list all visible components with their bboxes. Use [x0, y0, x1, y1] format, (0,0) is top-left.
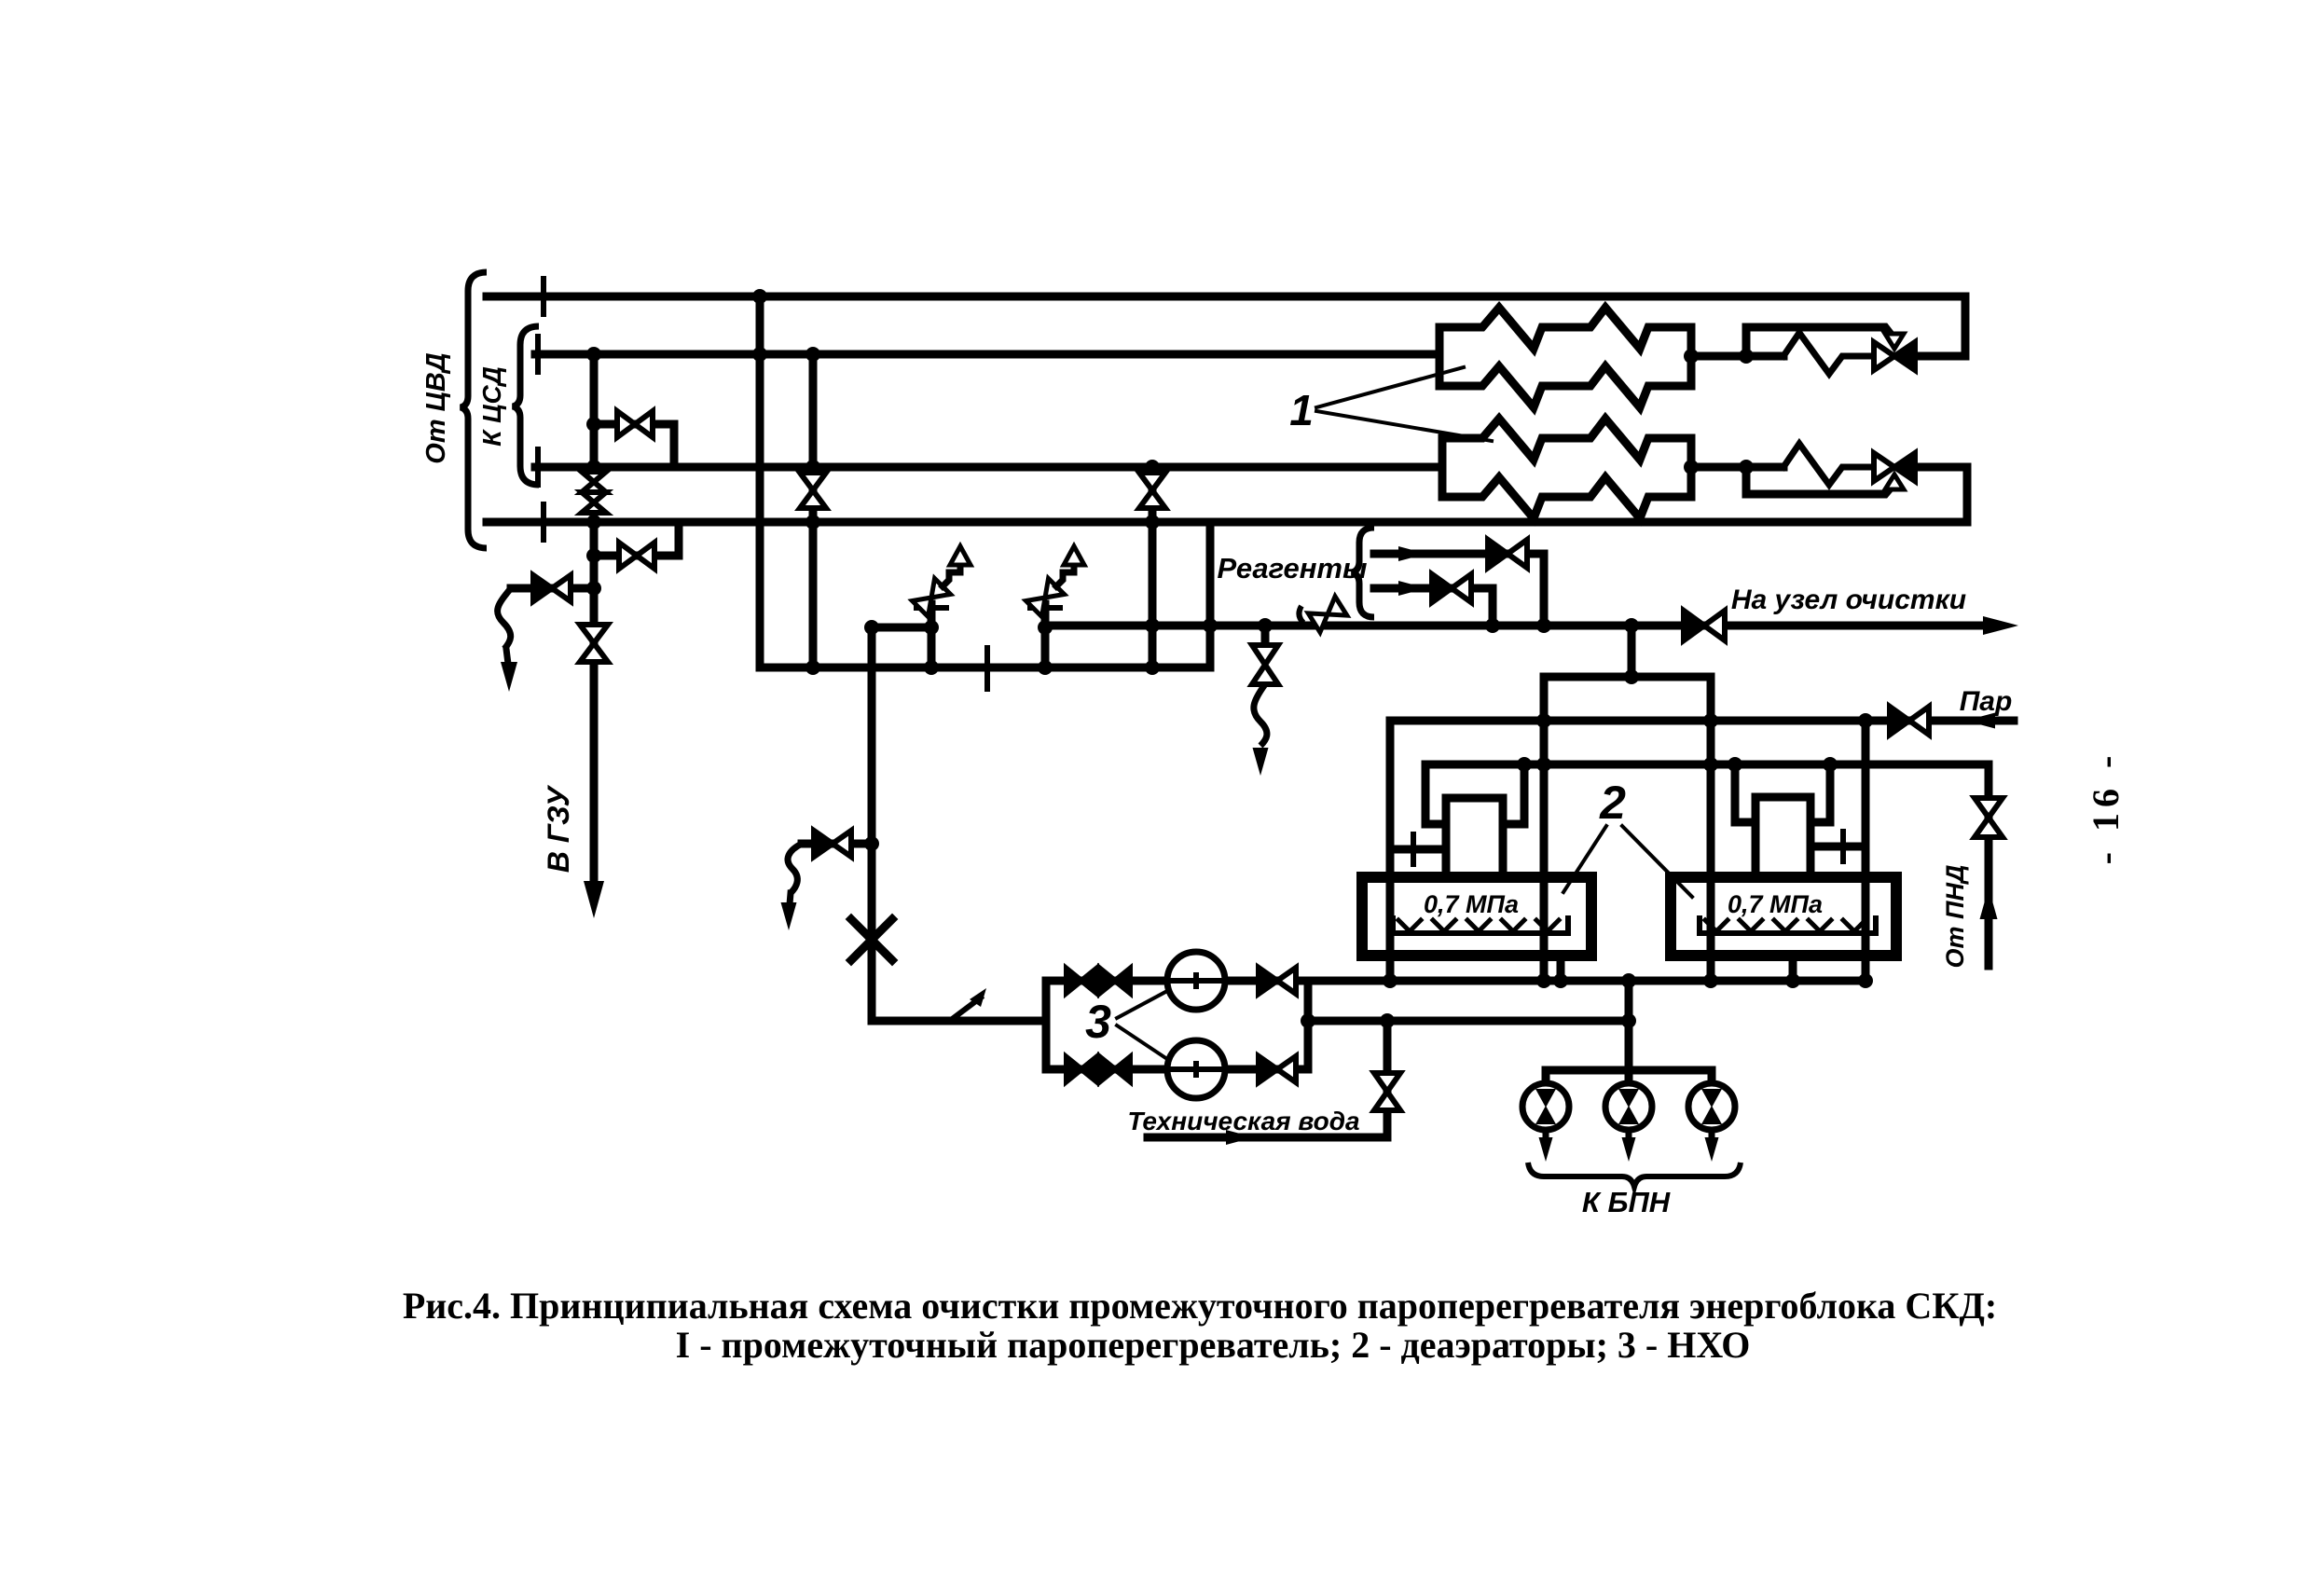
ion filter 3 lower circle [1167, 1040, 1225, 1098]
deaerator right tray [1700, 918, 1876, 933]
svg-text:0,7 МПа: 0,7 МПа [1728, 890, 1823, 918]
heat-exchanger 1 lower coil [1442, 419, 1691, 518]
node NHO feed top [864, 620, 879, 635]
valve V15b top [1100, 969, 1130, 993]
brace Ot-TsVD (outer) [461, 272, 487, 548]
wire blowdown manifold y716 [760, 664, 1210, 672]
wire drain at x1357 below main [1261, 626, 1270, 645]
label 0,7 MPa right [1728, 890, 1823, 918]
valve V16 top [1259, 968, 1296, 994]
wire purification main line y671 [1045, 622, 1995, 630]
wire box-bottom to NHO link [1304, 981, 1313, 1021]
tick manifold x1059 [984, 648, 990, 689]
arrow Par (pointing left) [1965, 713, 1995, 729]
node NHO outlet right [1621, 1013, 1636, 1028]
svg-text:От ПНД: От ПНД [1941, 865, 1969, 969]
wire drain branch left with valve V5 [511, 585, 594, 593]
valve V11 reagent2 [1432, 574, 1471, 602]
node main-header drop [1624, 618, 1639, 633]
svg-text:0,7 МПа: 0,7 МПа [1424, 890, 1519, 918]
wire header right vertical x1835 [1707, 677, 1715, 981]
wire reagent line 1 [1374, 554, 1544, 626]
svg-text:К БПН: К БПН [1582, 1186, 1671, 1218]
arrow drain x860 down [781, 893, 797, 930]
node tech water tee [1380, 1013, 1395, 1028]
valve V9 vertical below main [1252, 645, 1278, 684]
node bottom x1656 [1536, 973, 1551, 988]
wire RV2 to L4 corner [1915, 467, 1967, 522]
arrow to GZU [584, 881, 604, 918]
tick L2 start [535, 337, 541, 372]
label Tekhnicheskaya voda [1127, 1107, 1359, 1135]
wire L2 header to upper reheater [535, 351, 1439, 359]
valve V14 [814, 831, 851, 857]
valve V15a top [1067, 969, 1096, 993]
wire header top y726 [1544, 673, 1711, 681]
svg-text:К ЦСД: К ЦСД [477, 366, 506, 447]
valve V8 on main line [1684, 611, 1725, 640]
node probe1 tee y673 [924, 620, 939, 635]
deaerator left level stub [1390, 834, 1446, 864]
wire upper bypass loop [1746, 327, 1894, 356]
tick L1 start [541, 279, 546, 314]
wire NHO feed vertical x935 [868, 627, 876, 1021]
sampling probe P2 [1026, 546, 1084, 667]
arrow Na uzel ochistki [1983, 616, 2018, 635]
relief valve RV1 upper [1874, 334, 1915, 370]
pump-valve to BPN C [1688, 1070, 1735, 1162]
spring zigzag lower [1783, 444, 1874, 485]
label Na uzel ochistki [1731, 585, 1966, 615]
svg-text:Реагенты: Реагенты [1218, 552, 1368, 585]
closed valve X on x935 [851, 919, 892, 960]
deaerator right hat [1735, 764, 1830, 822]
valve V6 on x872 between L3/L4 [800, 473, 826, 508]
node branch-V4 on vertical [586, 548, 601, 563]
node L2-x815 [752, 347, 767, 362]
wire tech water riser x1488 [1384, 1021, 1392, 1137]
node L3-x1236 [1145, 460, 1160, 475]
svg-text:От ЦВД: От ЦВД [421, 352, 451, 463]
deaerator right level stub [1810, 832, 1866, 861]
pump-valve to BPN B [1605, 1070, 1652, 1162]
node branch-V3 on vertical [586, 417, 601, 432]
brace K-TsSD (inner) [513, 326, 539, 485]
node box-top x1656 [1536, 713, 1551, 728]
node hat-x1656 [1536, 757, 1551, 772]
caption line 1 [403, 1285, 1997, 1327]
arrow drain x1357 [1253, 748, 1269, 776]
valve V12 Par [1890, 707, 1929, 735]
node bottom x1835 [1703, 973, 1718, 988]
node x935-y905 [864, 836, 879, 851]
wire box left edge x1491 [1386, 721, 1395, 981]
wire lower outlet y501 [1691, 463, 1783, 472]
brace Reagenty [1352, 528, 1374, 617]
tap T1 angled on main line [1299, 597, 1346, 632]
wire box right edge x2001 [1862, 721, 1870, 981]
node bottom x2001 [1858, 973, 1873, 988]
valve V17b bottom [1100, 1057, 1130, 1081]
svg-text:Техническая вода: Техническая вода [1127, 1107, 1359, 1135]
NHO loop bottom branch [1046, 1066, 1308, 1074]
valve V18 bottom [1259, 1056, 1296, 1082]
node bottom x1491 [1383, 973, 1397, 988]
label Reagenty [1218, 552, 1368, 585]
label K TsSD (rotated) [477, 366, 506, 447]
svg-text:1: 1 [1289, 386, 1314, 434]
wire BPN manifold y1148 [1546, 1066, 1712, 1075]
node L1-x815 [752, 289, 767, 304]
node L2-x872 [805, 347, 820, 362]
node bottom x1923 [1785, 973, 1800, 988]
wire bypass branch below L4 with valve V4 [594, 522, 679, 556]
node manifold-x872 [805, 660, 820, 675]
deaerator left column [1446, 798, 1503, 877]
caption line 2 [676, 1324, 1751, 1366]
node upper loop tee [1739, 349, 1754, 364]
tap T2 on NHO line [951, 988, 986, 1020]
node manifold-x1236 [1145, 660, 1160, 675]
deaerator left spray nozzles [1398, 920, 1559, 931]
heat-exchanger 1 upper coil [1439, 308, 1691, 407]
deaerator left tank [1362, 877, 1591, 956]
wire lower bypass loop [1746, 467, 1894, 494]
label 1 with leaders [1289, 367, 1492, 441]
node L3-x872 [805, 460, 820, 475]
node L2-x637 [586, 347, 601, 362]
label Par [1960, 686, 2013, 717]
node box-top x1835 [1703, 713, 1718, 728]
wire box bottom y1052 [1308, 977, 1866, 985]
deaerator left hat [1425, 764, 1524, 824]
deaerator right tank [1671, 877, 1896, 956]
wire upper outlet y382 [1691, 352, 1783, 361]
svg-text:- 16 -: - 16 - [2085, 750, 2127, 865]
wire vertical x1298 from L4 [1206, 522, 1215, 667]
node probe2 tee y673 [1038, 620, 1053, 635]
wire squiggle drain x1357 [1254, 684, 1267, 746]
node box-top-right corner [1858, 713, 1873, 728]
valve V19 tech water [1374, 1073, 1400, 1110]
pump-valve to BPN A [1522, 1070, 1569, 1162]
label 3 with leaders [1085, 991, 1167, 1059]
valve V5 [533, 575, 571, 601]
node main-x1357 [1258, 618, 1273, 633]
arrow reagent1 [1398, 546, 1426, 561]
wire right tank drain [1789, 956, 1797, 982]
wire L3 header to lower reheater [535, 463, 1442, 472]
node hat-x1635 [1517, 757, 1532, 772]
wire vertical x1236 from L3 [1149, 467, 1157, 667]
label V GZU (rotated) [542, 785, 575, 874]
valve V2 on drain below L4 [580, 625, 608, 662]
valve V3 [617, 411, 653, 437]
node L3-x637 [586, 460, 601, 475]
wire vertical x872 from L2 [809, 354, 818, 667]
wire tech water line y1220 [1148, 1134, 1387, 1142]
deaerator right column [1755, 797, 1810, 877]
NHO loop left edge [1042, 981, 1051, 1069]
node hat-x1861 [1728, 757, 1742, 772]
wire NHO main line left [872, 1018, 1046, 1021]
NHO loop right edge [1304, 981, 1313, 1069]
valve V17a bottom [1067, 1057, 1096, 1081]
label Ot PND (rotated) [1941, 865, 1969, 969]
ion filter 3 upper circle [1167, 952, 1225, 1010]
wire hat connector line y820 [1425, 761, 1989, 769]
arrow drain left down [501, 649, 517, 692]
node header top center [1624, 669, 1639, 684]
node branch-V5 [586, 581, 601, 596]
wire drop to BPN x1747 [1625, 981, 1633, 1070]
label 2 with leaders [1563, 777, 1692, 897]
svg-text:Рис.4. Принципиальная схема оч: Рис.4. Принципиальная схема очистки пром… [403, 1285, 1997, 1327]
valve V13 Ot PND [1975, 798, 2003, 837]
wire squiggle drain left [498, 588, 511, 649]
node main-x1298 [1203, 618, 1218, 633]
node bottom x1674 [1553, 973, 1568, 988]
node L4-x1236 [1145, 515, 1160, 530]
label K BPN [1582, 1186, 1671, 1218]
svg-text:3: 3 [1085, 996, 1111, 1048]
wire NHO outlet line y1095 [1301, 1013, 1629, 1028]
wire reagent line 2 [1374, 588, 1493, 626]
arrow reagent2 [1398, 581, 1426, 596]
spring zigzag upper [1783, 333, 1874, 374]
wire header left vertical x1656 [1540, 677, 1549, 981]
node lower outlet [1684, 460, 1699, 475]
svg-text:I - промежуточный пароперегрев: I - промежуточный пароперегреватель; 2 -… [676, 1324, 1751, 1366]
label 0,7 MPa left [1424, 890, 1519, 918]
wire Ot PND riser x2133 [1985, 764, 1993, 966]
wire probe1 link to x936 [873, 624, 931, 632]
deaerator right spray nozzles [1705, 920, 1866, 931]
node reagent1-main [1536, 618, 1551, 633]
node reagent2-main [1485, 618, 1500, 633]
node hat-x1835 [1703, 757, 1718, 772]
node bottom x1747 [1621, 973, 1636, 988]
sampling probe P1 [912, 546, 971, 667]
svg-text:Пар: Пар [1960, 686, 2013, 717]
label Ot TsVD (rotated) [421, 352, 451, 463]
tick L4 start [541, 504, 546, 540]
NHO loop top branch [1046, 977, 1308, 985]
relief valve RV2 lower [1874, 453, 1915, 489]
node L4-x637 [586, 515, 601, 530]
valve pair V1a/V1b between L3 and L4 [582, 472, 606, 513]
deaerator left tray [1393, 918, 1568, 933]
node main-x1236 [1145, 618, 1160, 633]
underbrace K BPN [1528, 1163, 1741, 1187]
wire RV1 to L1 corner [1915, 296, 1965, 356]
tick L3 start [535, 449, 541, 485]
svg-text:На узел очистки: На узел очистки [1731, 585, 1966, 615]
node manifold-x999 [924, 660, 939, 675]
node lower loop tee [1739, 460, 1754, 475]
page number -16- [2085, 750, 2127, 865]
wire squiggle drain x860 [788, 844, 802, 893]
valve V10 reagent1 [1488, 540, 1527, 568]
arrow tech water [1226, 1130, 1254, 1145]
wire vertical x815 from L1 [756, 296, 764, 667]
wire bypass branch L2-L3 with valve V3 [594, 424, 674, 467]
arrow Ot PND up [1980, 887, 1998, 919]
node hat-x1963 [1823, 757, 1838, 772]
wire vertical drain main x637 [590, 354, 599, 887]
valve V4 [619, 543, 654, 569]
node upper outlet [1684, 349, 1699, 364]
wire branch valve left of x935 [802, 840, 872, 848]
svg-text:В ГЗУ: В ГЗУ [542, 785, 575, 874]
node L4-x872 [805, 515, 820, 530]
wire box top / Par line y773 [1390, 717, 2014, 725]
valve V7 on x1236 between L3/L4 [1139, 473, 1165, 508]
wire L4 cold-reheat header (K TsSD bottom) [487, 518, 1967, 527]
wire L1 hot-reheat header (Ot TsVD top) [487, 293, 1965, 301]
wire left tank drain [1557, 956, 1565, 982]
wire drop main to header [1628, 626, 1636, 677]
svg-text:2: 2 [1599, 777, 1626, 829]
node manifold-x1121 [1038, 660, 1053, 675]
